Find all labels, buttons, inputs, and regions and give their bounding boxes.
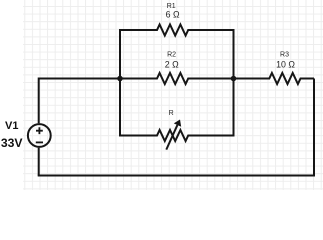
resistor R2 (middle branch, with leads) — [120, 73, 234, 84]
resistor R1 (top branch, with leads) — [120, 25, 234, 36]
svg-text:2 Ω: 2 Ω — [165, 60, 179, 70]
voltage source V1 (circle with polarity marks) — [28, 124, 51, 147]
svg-text:33V: 33V — [1, 136, 24, 150]
wire: main node line from V1 top corner to left parallel rail — [39, 78, 120, 80]
wire: left rail upper segment (corner down to V1 top terminal) — [38, 78, 40, 124]
wire: right rail (R3 output down to bottom-right corner) — [313, 79, 315, 177]
svg-text:6 Ω: 6 Ω — [166, 10, 180, 20]
svg-text:10 Ω: 10 Ω — [276, 60, 295, 70]
junction: node at left rail / R2 branch — [117, 76, 123, 82]
junction: node at right rail / R2 branch — [231, 76, 237, 82]
resistor R3 (series output resistor, with leads) — [234, 73, 315, 84]
rheostat R (bottom branch variable resistor, with leads) — [120, 120, 234, 150]
svg-text:R: R — [169, 110, 174, 117]
svg-text:R3: R3 — [280, 52, 289, 59]
wire: right parallel rail — [233, 29, 235, 137]
wire: left parallel rail — [119, 29, 121, 137]
wire: bottom return wire — [38, 175, 315, 177]
svg-text:V1: V1 — [5, 120, 18, 132]
wire: left rail lower segment (V1 bottom terminal down to bottom-left corner) — [38, 148, 40, 176]
svg-text:R2: R2 — [167, 52, 176, 59]
